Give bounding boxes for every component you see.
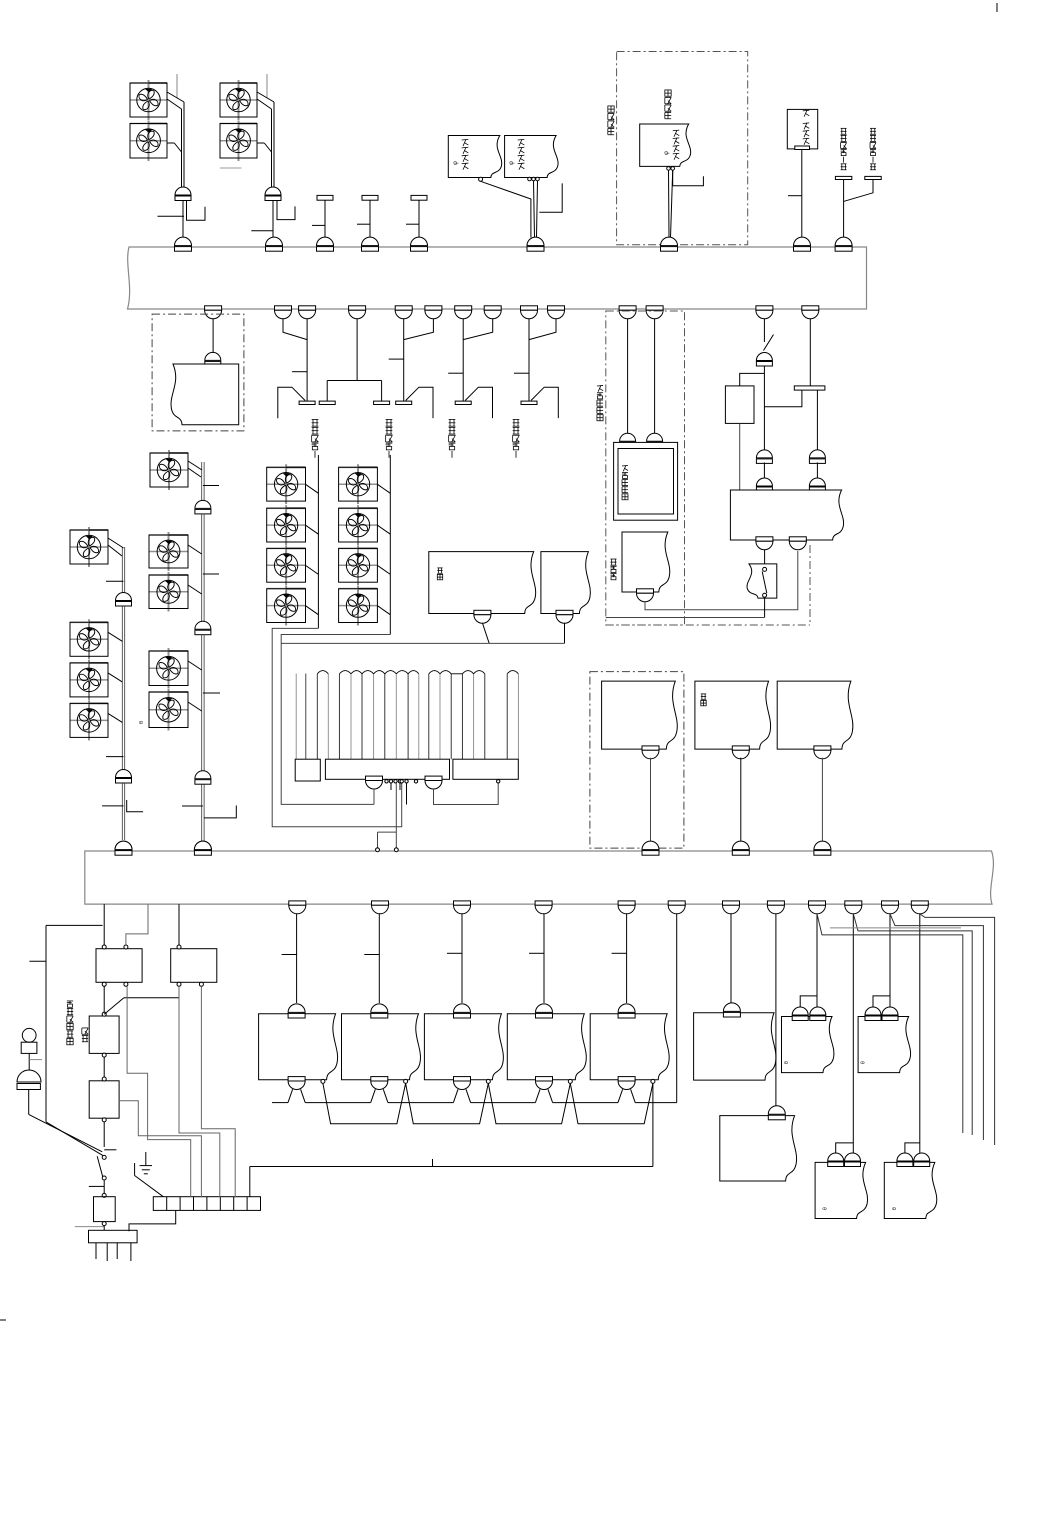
svg-text:θ: θ [784, 1061, 790, 1064]
svg-text:θ: θ [823, 1207, 829, 1210]
svg-text:φ: φ [664, 151, 670, 155]
svg-text:φ: φ [453, 161, 459, 165]
svg-text:θ: θ [139, 721, 145, 724]
svg-text:θ: θ [892, 1207, 898, 1210]
svg-text:φ: φ [509, 161, 515, 165]
svg-text:θ: θ [861, 1061, 867, 1064]
